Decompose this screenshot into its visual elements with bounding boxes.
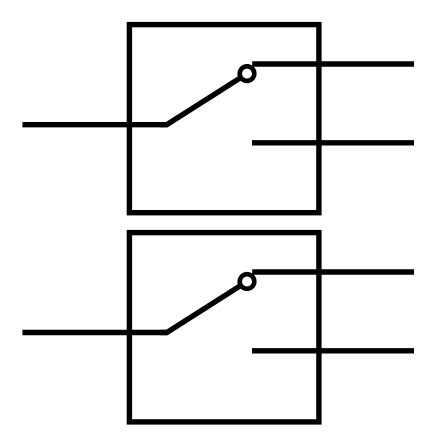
switch SW2 body box <box>129 233 319 422</box>
wire: SW1 common lead (left) <box>22 122 167 127</box>
wire: SW2 throw B lead (lower right) <box>252 348 414 353</box>
switch SW1 contact circle <box>240 66 255 81</box>
switch SW1 body box <box>129 25 319 213</box>
switch SW2 contact circle <box>240 274 255 289</box>
wire: SW2 throw A lead (top right) <box>252 269 414 274</box>
wire: SW2 common lead (left) <box>22 330 167 335</box>
switch SW2 lever (pole) <box>160 282 247 333</box>
wire: SW1 throw A lead (top right) <box>252 61 414 66</box>
switch SW1 lever (pole) <box>160 74 247 125</box>
wire: SW1 throw B lead (lower right) <box>252 140 414 145</box>
